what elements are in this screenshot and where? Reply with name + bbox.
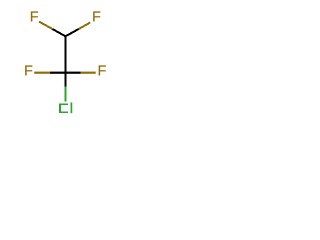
svg-text:F: F [24,64,33,80]
wire C1 to F top-left (black half) [53,29,66,36]
wire C1 to C2 [65,36,67,72]
wire C2 to Cl (green half) [65,87,67,102]
wire C1 to F top-left (gold half) [39,22,53,30]
atom label Cl : l glyph [70,102,72,113]
svg-text:F: F [30,10,39,26]
wire C1 to F top-right (black half) [66,29,79,36]
wire C2 to F left (gold half) [34,72,50,74]
wire C1 to F top-right (gold half) [79,23,91,30]
wire C2 to F left (black half) [50,72,66,74]
wire C2 to F right (gold half) [81,72,96,74]
wire C2 to F right (black half) [66,72,81,74]
svg-text:F: F [92,10,101,26]
wire C2 to Cl (black half) [65,72,67,87]
atom label Cl : C glyph [60,104,68,112]
svg-text:F: F [97,64,106,80]
